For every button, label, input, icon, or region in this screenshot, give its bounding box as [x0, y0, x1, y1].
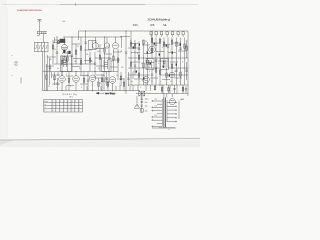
capacitor C5 — [94, 52, 96, 78]
page bottom edge — [0, 139, 200, 141]
capacitor C19 — [134, 58, 136, 75]
tube V7 — [89, 75, 96, 91]
resistor R5 — [80, 37, 82, 72]
resistor R37 — [101, 74, 103, 91]
wire h24 — [66, 85, 74, 87]
capacitor C6 — [108, 44, 110, 78]
top tick mark — [75, 3, 77, 6]
wire v right — [178, 101, 180, 120]
resistor R16 — [159, 38, 161, 86]
wire h38 — [158, 60, 166, 62]
wire h26 — [130, 43, 138, 45]
bus wire y71.5 — [43, 71, 119, 73]
resistor R17 — [163, 38, 165, 59]
junction dots — [57, 31, 173, 92]
wire h21 — [105, 81, 110, 83]
resistor R22 — [83, 72, 85, 91]
wire h1 — [53, 42, 60, 44]
wire h35 — [178, 50, 186, 52]
resistor R13 — [143, 40, 145, 85]
resistor R9 — [113, 49, 115, 72]
wire h4 — [84, 49, 92, 51]
page background — [0, 0, 200, 147]
wire h37 — [146, 62, 154, 64]
box F2 — [61, 56, 72, 72]
wire h2 — [62, 52, 70, 54]
wire h13 — [46, 65, 54, 67]
resistor R33 — [138, 68, 140, 85]
transformer bottom wire — [159, 127, 175, 129]
dark blobs right module — [133, 43, 181, 80]
rectifier tube V10 — [169, 94, 175, 105]
inner box top — [120, 36, 130, 38]
table cell marks — [44, 100, 80, 112]
wire h12 — [112, 59, 120, 61]
capacitor C26 — [185, 86, 187, 94]
tube V3b circle — [104, 37, 109, 48]
capacitor C15 — [150, 85, 152, 91]
small dot mark — [169, 129, 170, 130]
resistor R11 — [130, 31, 132, 85]
valve data table — [44, 100, 83, 113]
right zone horizontals — [128, 74, 150, 76]
wire h23 — [52, 83, 60, 85]
resistor R26 — [123, 78, 125, 91]
resistor R31 — [166, 68, 168, 85]
tuning gang C1 — [35, 42, 49, 51]
trafo can dark M2 — [68, 51, 70, 54]
antenna — [37, 20, 42, 32]
capacitor C2 ladder — [56, 37, 58, 64]
tube V3 circle — [112, 37, 118, 49]
resistor R10 — [117, 49, 119, 78]
capacitor C14 — [132, 85, 134, 91]
wire h31 — [131, 52, 140, 54]
connector block dark — [60, 39, 65, 43]
capacitor C20 — [151, 68, 153, 85]
capacitor C22 — [185, 62, 187, 80]
wire h17 — [52, 74, 60, 76]
resistor R28 — [154, 85, 156, 91]
capacitor C18 — [175, 58, 177, 85]
wire h19 — [80, 75, 89, 77]
resistor R30 — [46, 64, 48, 91]
secondary winding — [166, 100, 168, 122]
capacitor chain C16 — [140, 91, 143, 113]
wire bus left 2 — [44, 52, 46, 91]
wire h25 — [80, 83, 88, 85]
wire tick t8 — [51, 72, 53, 78]
wire h32 — [144, 53, 152, 55]
wire h18 — [66, 75, 73, 77]
IF can box F4 — [146, 59, 154, 70]
page top edge — [2, 4, 198, 6]
resistor R29 — [55, 37, 60, 44]
scan noise — [0, 0, 1, 1]
bus wire y37 — [63, 36, 122, 38]
page left edge — [6, 8, 8, 138]
wire h9 — [73, 58, 82, 60]
tube V9 — [143, 76, 150, 91]
wire h22 — [117, 78, 124, 80]
tube V8 — [109, 77, 116, 91]
arrow marker left — [96, 92, 104, 94]
wire h41 — [150, 77, 158, 79]
tube V4 circle — [149, 31, 156, 53]
resistor R23 — [98, 78, 100, 91]
wire h14 — [72, 66, 80, 68]
antenna coil L1 — [37, 32, 47, 43]
wire core feed — [164, 94, 167, 98]
wire h16 — [110, 66, 118, 68]
capacitor C13 — [103, 72, 105, 91]
wire tick t4 — [86, 86, 88, 91]
resistor R27 — [137, 85, 139, 91]
coil L4 in box F3 — [104, 60, 108, 69]
wire segs right lower — [163, 85, 183, 94]
wire tick t5 — [100, 86, 102, 91]
wire h7 — [113, 51, 121, 53]
bottom bus y90.7 — [43, 90, 141, 92]
wire h10 — [84, 60, 92, 62]
wire tick t6 — [115, 86, 117, 91]
capacitor C4 — [84, 31, 86, 64]
resistor R15 — [151, 38, 153, 59]
wire h39 — [170, 61, 178, 63]
resistor R18 — [171, 38, 173, 86]
resistor R6 — [89, 52, 91, 72]
IF can box F5 — [161, 59, 169, 70]
left border wire — [42, 52, 44, 91]
wire tick t7 — [129, 86, 131, 91]
mains transformer T1 — [152, 85, 177, 128]
capacitor chain labels — [145, 98, 149, 112]
wire h30 — [173, 42, 181, 44]
wire tick t9 — [132, 72, 134, 79]
resistor R20 — [184, 38, 186, 86]
resistor R1 ladder — [52, 40, 54, 63]
resistor R4 — [75, 44, 77, 64]
resistor R7 — [99, 44, 101, 72]
wire h20 — [96, 74, 104, 76]
component ladders — [46, 31, 188, 94]
capacitor C24 — [105, 72, 107, 86]
tube V1 ECH81 — [62, 37, 68, 51]
capacitor C10 — [167, 38, 169, 69]
capacitor C3 — [71, 37, 73, 72]
wire h36 — [132, 61, 140, 63]
capacitor C11 — [179, 38, 181, 69]
warning triangle — [134, 104, 139, 109]
resistor R34 — [155, 58, 157, 85]
resistor R40 — [161, 85, 163, 94]
fuse box with X — [139, 91, 145, 96]
bottom right border wire — [152, 127, 176, 129]
primary winding — [161, 99, 163, 127]
module terminal row — [150, 32, 184, 37]
wire bus left 3 — [46, 55, 48, 91]
wire tick t1 — [57, 72, 59, 77]
wire h6 — [104, 53, 112, 55]
bus wire y64 — [52, 63, 95, 65]
right inner horizontals — [128, 57, 188, 59]
capacitor C8 — [138, 41, 140, 68]
wire h43 — [174, 77, 182, 79]
capacitor C7 — [125, 31, 127, 91]
resistor R21 — [68, 72, 70, 91]
resistor R19 — [176, 38, 178, 59]
wire tick t3 — [80, 72, 82, 76]
pencil mark — [20, 78, 22, 84]
capacitor C25 — [127, 72, 129, 86]
tube V2 circle — [92, 37, 98, 49]
wire h3 — [72, 43, 80, 45]
wire h29 — [163, 44, 170, 46]
resistor R8 — [104, 37, 106, 72]
wire h15 — [96, 65, 104, 67]
resistor R39 — [182, 86, 184, 94]
resistor R12 — [134, 40, 136, 58]
wire h33 — [156, 51, 164, 53]
wire h5 — [96, 48, 104, 50]
capacitor C23 — [56, 78, 58, 91]
wire h42 — [162, 79, 170, 81]
trafo can dark M1 — [63, 50, 65, 53]
resistor R3 — [67, 51, 69, 72]
wire h28 — [152, 42, 160, 44]
resistor R41 — [168, 85, 170, 94]
resistor R2 — [61, 55, 63, 76]
coil L2 — [63, 56, 68, 63]
capacitor C21 — [163, 58, 165, 68]
wire bus left 4 — [49, 58, 51, 85]
IF transformer box F1 — [89, 41, 97, 50]
paper curl shadow — [0, 140, 15, 145]
tube V11 circle — [169, 72, 175, 78]
wire h40 — [134, 78, 142, 80]
lower right bus — [136, 93, 188, 95]
resistor R24 — [107, 78, 109, 91]
wire tick t2 — [65, 86, 67, 91]
resistor R36 — [54, 72, 56, 85]
capacitor C17 — [49, 64, 51, 72]
wire h27 — [142, 44, 150, 46]
coil L3 in box F2 — [64, 58, 67, 67]
tap labels — [155, 99, 158, 117]
resistor R25 — [119, 85, 121, 91]
page number 69 rotated — [11, 53, 19, 77]
wire h11 — [95, 57, 102, 59]
tube V5 — [59, 72, 66, 91]
chassis box top-right enclosure — [79, 31, 189, 96]
resistor R32 — [180, 68, 182, 85]
resistor R35 — [186, 40, 188, 58]
capacitor C27 — [173, 85, 175, 94]
wire triangle feed — [126, 91, 137, 103]
tube V6 — [73, 72, 80, 91]
wire h8 — [47, 56, 56, 58]
capacitor C12 — [87, 72, 89, 91]
scattered value labels — [48, 40, 183, 89]
capacitor C9 — [155, 38, 157, 69]
box F3 — [102, 58, 112, 72]
resistor R38 — [120, 72, 122, 86]
wire h34 — [168, 52, 176, 54]
resistor R14 — [147, 42, 149, 85]
